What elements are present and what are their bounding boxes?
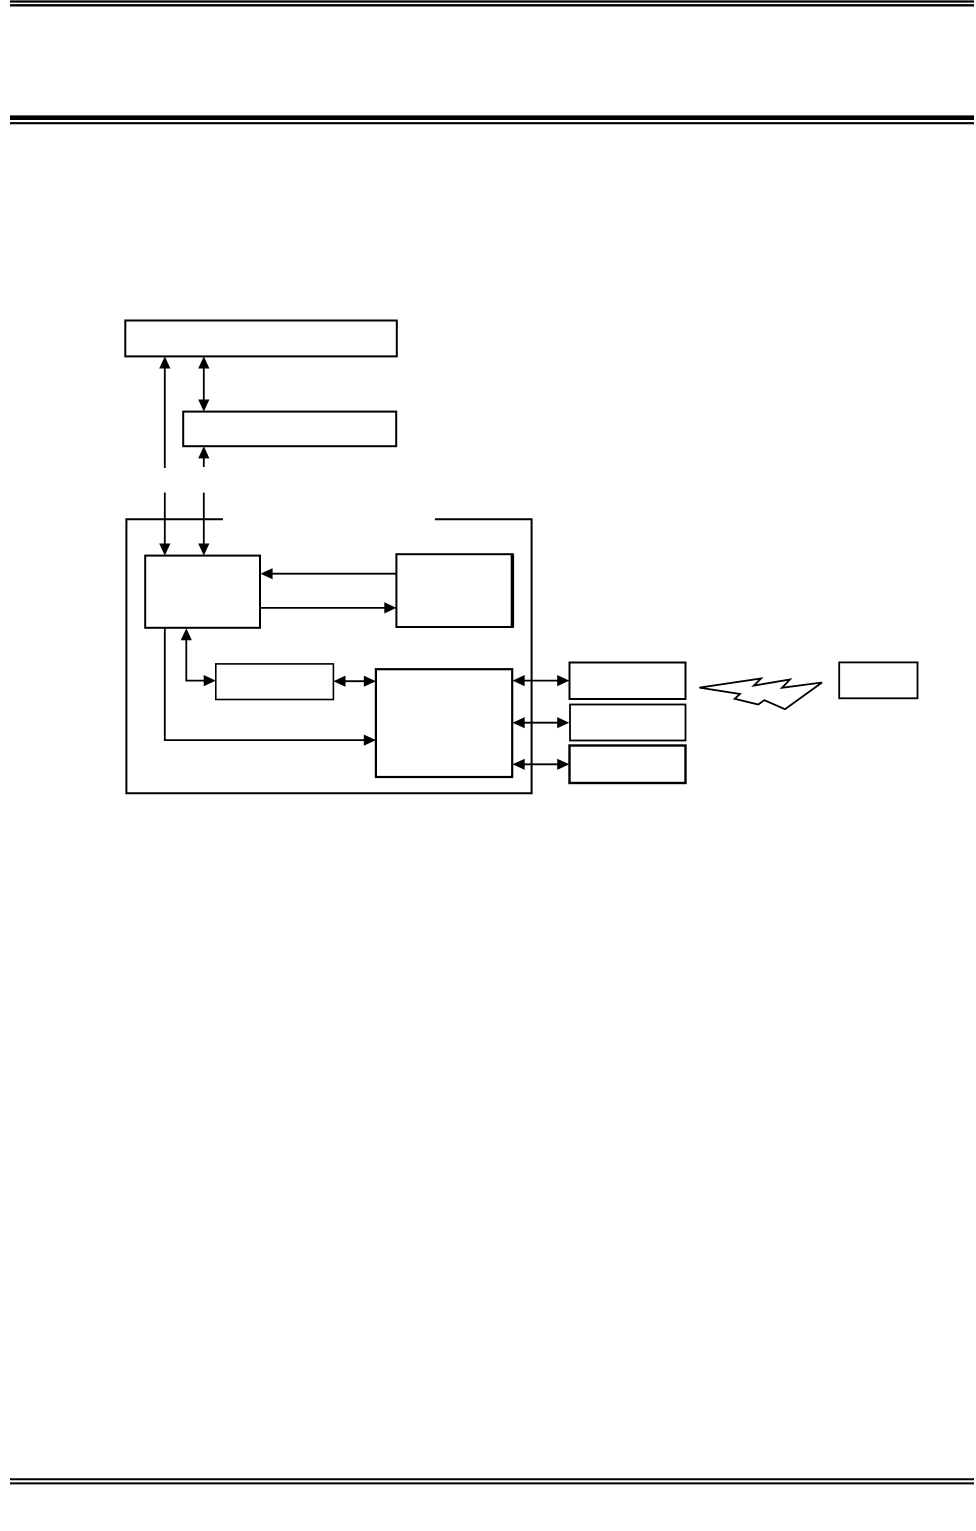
wire left bus segment down into box A: [159, 493, 170, 556]
wire double-head arrow box D to box E3: [513, 759, 570, 770]
wire double-head arrow between box C and box D: [333, 676, 376, 687]
wire arrow from box A to box B: [260, 602, 396, 613]
box B thick right edge: [511, 554, 514, 627]
lightning bolt callout shape: [699, 679, 822, 710]
header bottom thin rule: [10, 122, 974, 124]
box F far right block: [839, 662, 917, 698]
box B right inner block: [396, 554, 512, 627]
footer thin double rule line 1: [10, 1478, 974, 1480]
box B2 second wide block: [183, 412, 396, 447]
wire arrow from box B to box A: [261, 568, 397, 579]
container outline with gap in top edge: [126, 519, 531, 793]
box A left inner block: [145, 556, 260, 628]
header top thin double rule line 1: [10, 0, 974, 2]
box E1 right outer block 1: [570, 663, 686, 700]
wire elbow arrow from box A bottom to box D: [165, 628, 376, 746]
wire double-head arrow box D to box E1: [513, 675, 570, 686]
box E3 right outer block 3: [570, 746, 686, 784]
footer thin double rule line 2: [10, 1482, 974, 1484]
wire right bus segment down into box A: [198, 493, 209, 556]
box C small middle block: [216, 664, 334, 700]
header bottom thick rule: [10, 115, 974, 120]
wire up-arrow into box B2 bottom: [198, 446, 209, 467]
wire double-head vertical arrow between B1 and B2: [198, 356, 209, 411]
box D large middle-right block: [376, 669, 512, 777]
box E2 right outer block 2: [570, 705, 686, 741]
wire up-arrow from bus into box B1 left: [159, 356, 170, 468]
wire double-head arrow box D to box E2: [513, 717, 570, 728]
header top thin double rule line 2: [10, 4, 974, 6]
box B1 top wide block: [125, 321, 397, 357]
wire elbow arrow from box A bottom to box C: [181, 628, 216, 686]
